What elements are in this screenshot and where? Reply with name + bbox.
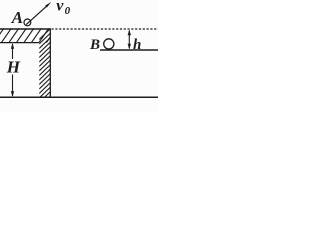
platform right wall line <box>49 29 51 98</box>
ground line <box>0 96 158 98</box>
dimension h bottom arrowhead <box>128 44 131 50</box>
platform band bottom line <box>0 42 39 44</box>
svg-text:0: 0 <box>65 5 71 17</box>
ball B <box>104 39 114 49</box>
svg-text:B: B <box>89 37 100 53</box>
svg-text:v: v <box>56 0 64 15</box>
platform wall hatching <box>39 29 50 108</box>
velocity arrow v0 head <box>45 2 51 8</box>
platform top surface line <box>0 28 51 30</box>
svg-text:H: H <box>6 58 21 77</box>
platform band hatching <box>0 28 57 43</box>
background <box>0 0 158 112</box>
dimension H top arrowhead <box>11 43 14 49</box>
ball A <box>24 19 31 26</box>
dotted level line <box>52 28 159 30</box>
ledge line <box>100 49 158 51</box>
svg-text:A: A <box>11 8 23 27</box>
dimension H bottom arrowhead <box>11 91 14 97</box>
velocity arrow v0 shaft <box>26 5 47 24</box>
dimension h shaft <box>128 31 130 49</box>
svg-text:h: h <box>133 37 141 53</box>
dimension H line upper segment <box>12 44 14 59</box>
dimension h top arrowhead <box>128 30 131 36</box>
dimension H line lower segment <box>12 75 14 97</box>
